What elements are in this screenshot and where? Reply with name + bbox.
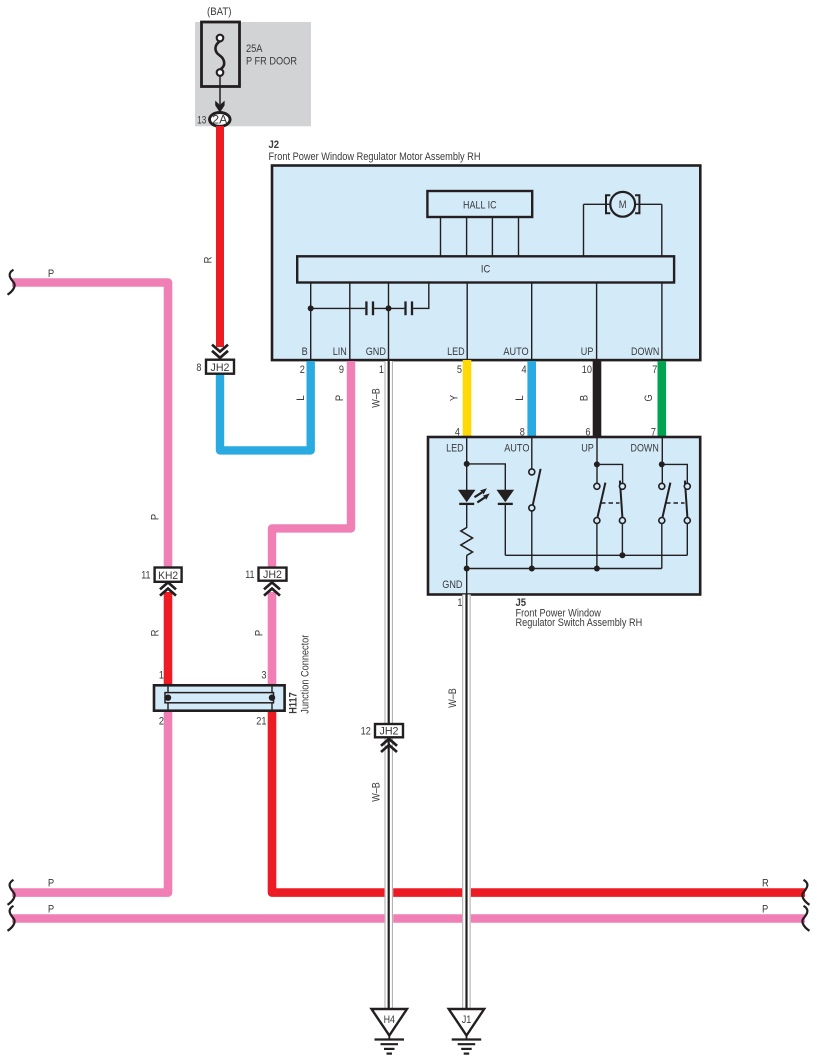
junction dot LED branch — [464, 461, 470, 467]
HALL IC box U1 — [427, 191, 532, 217]
svg-text:W–B: W–B — [371, 782, 383, 802]
svg-text:R: R — [203, 257, 215, 264]
svg-text:Y: Y — [449, 394, 461, 401]
wire AUTO contact to gnd bus — [531, 511, 533, 569]
ground J1 — [449, 1009, 485, 1054]
svg-text:J1: J1 — [462, 1014, 472, 1026]
svg-text:Junction Connector: Junction Connector — [300, 634, 312, 713]
svg-text:G: G — [643, 394, 655, 401]
junction connector H117 — [154, 685, 285, 710]
IC box — [297, 256, 674, 282]
svg-text:P: P — [48, 904, 54, 916]
svg-text:B: B — [579, 395, 591, 401]
svg-text:IC: IC — [481, 264, 490, 276]
svg-text:12: 12 — [361, 726, 371, 738]
circuit oval 2A — [210, 113, 231, 127]
svg-text:JH2: JH2 — [380, 726, 399, 738]
svg-text:25A: 25A — [246, 43, 263, 55]
svg-text:W–B: W–B — [447, 688, 459, 708]
svg-text:GND: GND — [366, 346, 386, 358]
junction dot DOWN branch — [659, 461, 665, 467]
capacitor C1 — [366, 301, 373, 315]
svg-text:P: P — [48, 268, 54, 280]
wire R red H117 down to bottom right — [272, 711, 805, 893]
J2 box Front Power Window Regulator Motor Assembly RH — [272, 166, 700, 361]
svg-text:M: M — [619, 199, 627, 211]
junction dot at B — [308, 305, 314, 311]
junction dot UP branch — [594, 461, 600, 467]
svg-text:LED: LED — [446, 442, 464, 454]
wire LED pin down — [466, 437, 468, 490]
wire L blue AUTO stub — [527, 361, 536, 437]
svg-text:B: B — [302, 346, 308, 358]
wire DOWN branch — [662, 464, 688, 483]
connector 8 JH2 — [196, 345, 234, 374]
svg-text:LED: LED — [447, 346, 465, 358]
svg-text:P: P — [48, 878, 54, 890]
svg-text:Regulator Switch Assembly RH: Regulator Switch Assembly RH — [516, 617, 643, 629]
svg-text:2A: 2A — [212, 115, 227, 127]
wire UP branch — [597, 464, 623, 483]
ground H4 — [372, 1009, 408, 1054]
svg-text:KH2: KH2 — [158, 570, 178, 582]
svg-text:JH2: JH2 — [263, 569, 282, 581]
svg-text:H4: H4 — [384, 1014, 395, 1026]
wire UP left contact to gnd bus — [596, 524, 598, 569]
switch SW-AUTO — [529, 469, 541, 511]
wire R red from fuse to JH2 — [216, 126, 224, 347]
svg-text:7: 7 — [652, 364, 657, 376]
fuse F1 box — [202, 22, 240, 87]
wire P pink top left from break to KH2 — [12, 283, 168, 569]
gnd bus — [467, 568, 662, 570]
svg-text:R: R — [150, 630, 162, 637]
svg-text:HALL IC: HALL IC — [463, 199, 497, 211]
svg-text:W–B: W–B — [371, 388, 383, 408]
wire diode to upper bus — [504, 504, 506, 555]
wire P pink from J2 pin9 LIN — [272, 361, 351, 568]
wire branch to diode — [467, 464, 506, 490]
junction dot AUTO gnd — [529, 566, 535, 572]
resistor R1 — [461, 528, 473, 556]
svg-text:1: 1 — [159, 670, 164, 682]
J5 pin name labels — [442, 442, 659, 591]
capacitor C2 — [406, 301, 413, 315]
svg-text:9: 9 — [339, 364, 344, 376]
svg-text:1: 1 — [379, 364, 384, 376]
wire DOWN right contact to upper bus — [686, 524, 688, 556]
wire LED to resistor — [466, 504, 468, 528]
svg-text:L: L — [295, 395, 307, 400]
J5 internal wires — [467, 437, 688, 595]
connector 12 JH2 — [361, 724, 403, 752]
wire Y yellow LED stub — [463, 360, 472, 437]
svg-text:Front Power Window Regulator M: Front Power Window Regulator Motor Assem… — [269, 151, 481, 163]
wire L blue from J2 pin2 to JH2 — [220, 361, 311, 450]
svg-text:P: P — [334, 395, 346, 401]
svg-text:P: P — [150, 514, 162, 520]
wire W-B from J2 GND to ground H4 — [384, 360, 393, 1009]
wire resistor to gnd bus — [466, 556, 468, 595]
svg-text:4: 4 — [522, 364, 527, 376]
svg-text:R: R — [762, 878, 769, 890]
motor M — [584, 192, 662, 256]
fuse block shaded area — [195, 22, 311, 126]
break symbol bottom right 2 — [802, 906, 809, 931]
diode D2 — [497, 490, 515, 504]
arrowhead into circuit 2A — [215, 101, 224, 113]
fuse element — [215, 35, 224, 76]
svg-text:1: 1 — [457, 597, 462, 609]
J5 box Front Power Window Regulator Switch Assembly RH — [428, 437, 700, 595]
wires HALL IC to IC — [441, 217, 519, 256]
svg-text:8: 8 — [196, 362, 201, 374]
LED D1 — [458, 488, 490, 504]
svg-text:(BAT): (BAT) — [207, 6, 232, 18]
wire W-B from J5 GND to ground J1 — [462, 595, 471, 1010]
break symbol top left — [8, 270, 15, 295]
internal pin wires below IC — [311, 282, 662, 360]
J2 pin name labels — [302, 346, 660, 358]
svg-text:10: 10 — [582, 364, 592, 376]
svg-text:13: 13 — [197, 114, 206, 126]
wire AUTO pin down — [531, 437, 533, 469]
svg-text:AUTO: AUTO — [504, 442, 530, 454]
svg-text:LIN: LIN — [333, 346, 347, 358]
svg-text:JH2: JH2 — [211, 362, 230, 374]
svg-text:H117: H117 — [288, 692, 300, 713]
svg-text:UP: UP — [581, 346, 594, 358]
svg-text:P: P — [254, 630, 266, 636]
wire G green DOWN stub — [657, 361, 666, 437]
switch SW-UP — [594, 481, 626, 524]
svg-text:21: 21 — [256, 716, 266, 728]
wire P pink JH2 to H117 — [268, 592, 277, 685]
switch SW-DOWN — [659, 481, 691, 524]
wire DOWN left contact to gnd bus — [661, 524, 663, 569]
J2 pin numbers — [300, 364, 658, 376]
svg-text:11: 11 — [141, 570, 150, 582]
wire UP right contact to upper bus — [621, 524, 623, 556]
svg-text:L: L — [514, 395, 526, 400]
connector 11 JH2 — [245, 568, 286, 596]
junction dot at GND — [386, 305, 392, 311]
upper bus — [505, 554, 687, 556]
wire P pink long bottom — [12, 914, 805, 923]
capacitor network wire — [311, 282, 429, 309]
break symbol bottom left 1 — [8, 880, 15, 905]
svg-text:2: 2 — [300, 364, 305, 376]
svg-text:3: 3 — [261, 670, 266, 682]
svg-text:11: 11 — [245, 569, 254, 581]
junction dot UP gnd — [594, 566, 600, 572]
junction dot UP upper bus — [619, 552, 625, 558]
J5 pin numbers above — [455, 426, 656, 438]
svg-text:UP: UP — [581, 442, 594, 454]
svg-text:AUTO: AUTO — [503, 346, 529, 358]
wire DOWN pin down — [661, 437, 663, 483]
svg-text:DOWN: DOWN — [631, 346, 659, 358]
wire fuse to arrow — [219, 76, 221, 105]
wire B black UP stub — [593, 361, 602, 437]
break symbol bottom right 1 — [802, 880, 809, 905]
svg-text:GND: GND — [442, 579, 462, 591]
svg-text:J2: J2 — [269, 139, 280, 151]
svg-text:5: 5 — [457, 364, 462, 376]
svg-text:P FR DOOR: P FR DOOR — [246, 56, 297, 68]
junction dot resistor gnd — [464, 566, 470, 572]
wire UP pin down — [596, 437, 598, 483]
wire P pink H117 down to bottom left — [12, 711, 168, 893]
connector 11 KH2 — [141, 568, 181, 596]
break symbol bottom left 2 — [8, 906, 15, 931]
svg-text:P: P — [762, 904, 768, 916]
svg-text:2: 2 — [159, 716, 164, 728]
wire R red KH2 to H117 — [164, 592, 173, 685]
svg-text:DOWN: DOWN — [631, 442, 659, 454]
